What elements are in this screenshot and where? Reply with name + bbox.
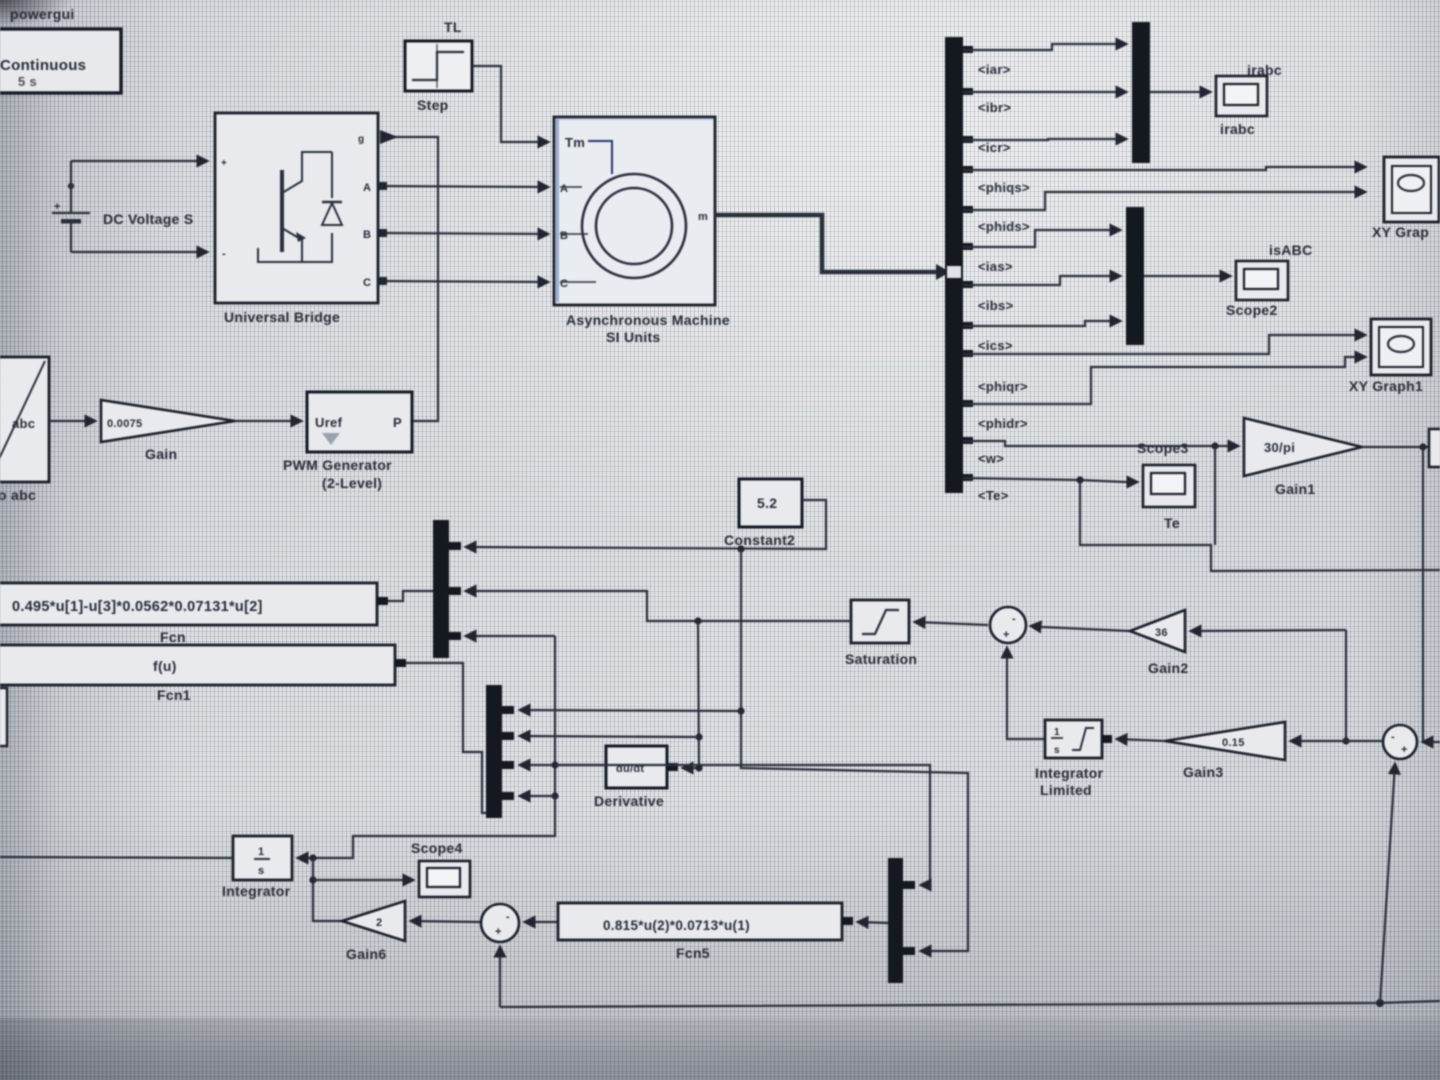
wire: Constant2 net down to mux2 input1 and mux3 input2	[741, 549, 968, 951]
wire: sum4 output to Gain6 input	[411, 921, 480, 922]
junction wr-796	[551, 792, 558, 799]
svg-text:30/pi: 30/pi	[1264, 440, 1295, 455]
scope Scope4	[411, 840, 470, 897]
svg-text:+: +	[54, 201, 61, 213]
svg-text:Gain1: Gain1	[1275, 481, 1315, 497]
svg-text:1: 1	[258, 846, 264, 858]
sum6 (circle right)	[1383, 725, 1417, 759]
wire: phiqs to XY Graph in1	[963, 167, 1365, 170]
svg-text:SI Units: SI Units	[606, 329, 661, 345]
block dq0-to-abc (cut at left edge)	[0, 357, 49, 503]
svg-text:0.815*u(2)*0.0713*u(1): 0.815*u(2)*0.0713*u(1)	[603, 918, 750, 933]
block PWM Generator (2-Level)	[283, 392, 412, 491]
wire: ias to mux5	[963, 230, 1120, 247]
svg-text:P: P	[393, 415, 402, 430]
junction wr-765	[551, 761, 558, 768]
wire: Gain2 output to sum5	[1031, 626, 1130, 631]
wire: bridge C to machine C	[378, 281, 548, 282]
wire: bridge A to machine A	[378, 186, 548, 187]
svg-text:<ias>: <ias>	[978, 259, 1013, 274]
junction bottom feedback	[1376, 999, 1384, 1007]
block Gain 0.0075	[101, 400, 235, 462]
svg-text:Fcn1: Fcn1	[157, 687, 191, 703]
svg-text:5 s: 5 s	[18, 74, 37, 89]
wire: icr to mux4	[963, 139, 1126, 140]
block Integrator (1/s) flipped	[222, 836, 292, 899]
wire: Gain3 output to Integrator Limited input	[1117, 739, 1165, 741]
svg-text:Gain3: Gain3	[1183, 764, 1223, 780]
block Universal Bridge	[215, 113, 378, 325]
svg-text:<phiqs>: <phiqs>	[978, 180, 1030, 195]
svg-text:<Te>: <Te>	[978, 488, 1009, 503]
wire: Gain2 feedback column	[1345, 630, 1347, 741]
svg-text:B: B	[363, 229, 371, 241]
scope Scope2 (isABC)	[1226, 242, 1313, 318]
mux4: rotor currents mux	[1132, 22, 1150, 163]
scope irabc	[1216, 62, 1282, 137]
block Fcn1	[0, 645, 406, 703]
svg-text:A: A	[363, 182, 371, 194]
svg-text:<w>: <w>	[978, 451, 1004, 466]
svg-text:Scope2: Scope2	[1226, 302, 1278, 318]
demux: machine measurement bus selector (tall black bar)	[945, 37, 963, 493]
block powergui (Continuous)	[0, 29, 121, 93]
wire: speed error to Gain2 input	[1191, 630, 1346, 631]
wire: mux2 input1	[520, 710, 741, 711]
wire: abc to Gain	[49, 420, 95, 422]
svg-text:isABC: isABC	[1269, 242, 1313, 258]
svg-text:<phiqr>: <phiqr>	[978, 379, 1028, 394]
svg-text:Integrator: Integrator	[1035, 765, 1104, 781]
svg-text:Scope4: Scope4	[411, 840, 463, 856]
svg-text:+: +	[221, 158, 227, 169]
mux5: stator currents mux	[1126, 207, 1144, 345]
svg-text:(2-Level): (2-Level)	[322, 475, 382, 491]
wire: mux1 input3 from wr column	[466, 635, 555, 637]
wire: phids to XY Graph in2	[963, 192, 1365, 210]
svg-text:m: m	[698, 211, 708, 223]
svg-text:Integrator: Integrator	[222, 883, 291, 899]
svg-text:s: s	[258, 865, 264, 877]
svg-text:Tm: Tm	[565, 135, 585, 150]
scope Te	[1143, 465, 1195, 531]
svg-text:A: A	[560, 183, 568, 195]
block Integrator Limited flipped	[1035, 720, 1112, 798]
wire: mux5 to Scope2	[1144, 275, 1230, 277]
svg-text:<ibr>: <ibr>	[978, 100, 1011, 115]
svg-text:Gain: Gain	[145, 446, 177, 462]
svg-text:XY Graph1: XY Graph1	[1349, 378, 1423, 394]
block Asynchronous Machine SI Units	[554, 117, 730, 345]
svg-text:Continuous: Continuous	[0, 57, 86, 74]
block Derivative (du/dt)	[594, 746, 678, 809]
junction deriv	[695, 764, 702, 771]
wire: node into integrator input	[298, 857, 313, 859]
wire: Te to scope Te	[963, 478, 1137, 482]
svg-text:Fcn: Fcn	[160, 629, 186, 645]
wire: speed feedback from Gain1 node down to sum	[1422, 447, 1424, 742]
mux2 (black bar)	[486, 685, 514, 818]
wire: iar to mux4	[963, 44, 1126, 50]
svg-text:Constant2: Constant2	[724, 532, 795, 548]
svg-text:Derivative: Derivative	[594, 793, 664, 809]
svg-text:Uref: Uref	[315, 415, 343, 430]
wire: ibr to mux4	[963, 91, 1126, 93]
wire: saturation net down to mux2 in2 and Derivative	[683, 621, 699, 768]
wire: Derivative output to mux2 input3	[520, 764, 606, 766]
svg-text:<phidr>: <phidr>	[978, 416, 1028, 431]
svg-text:PWM Generator: PWM Generator	[283, 457, 392, 473]
block XY Graph1	[1349, 319, 1431, 394]
svg-text:<ics>: <ics>	[978, 338, 1013, 353]
svg-text:Limited: Limited	[1040, 782, 1092, 798]
wire: DC- to bridge	[71, 251, 207, 253]
block Step (TL)	[405, 19, 472, 113]
wire: Fcn1 port to mux2	[406, 663, 486, 813]
demux output stubs	[963, 46, 973, 481]
sum4 (circle)	[481, 904, 519, 942]
wire: mux3 output to Fcn5 input	[858, 922, 888, 923]
junction node-880	[309, 876, 316, 883]
wire: bridge B to machine B	[378, 233, 548, 234]
svg-text:Step: Step	[417, 97, 449, 113]
block Gain1 (30/pi)	[1244, 418, 1362, 497]
wire: long bottom feedback	[500, 1001, 1440, 1007]
svg-text:C: C	[560, 278, 568, 290]
wire: w to Gain1	[963, 441, 1238, 446]
junction saturation net	[694, 617, 701, 624]
wire: DC+ to bridge	[71, 160, 207, 162]
junction mux2 in1	[737, 707, 744, 714]
wire: Fcn port to mux1	[388, 591, 433, 601]
wire: reference into sum6 right	[1423, 741, 1440, 743]
svg-text:f(u): f(u)	[153, 658, 177, 674]
svg-text:Te: Te	[1164, 515, 1180, 531]
wire: integrator-limited output up to sum5 bottom	[1007, 648, 1045, 739]
svg-text:o abc: o abc	[0, 487, 36, 503]
junction w-2	[1227, 442, 1234, 449]
svg-text:Fcn5: Fcn5	[676, 945, 710, 961]
svg-text:<icr>: <icr>	[978, 140, 1011, 155]
wire: node to Scope4	[313, 879, 413, 881]
svg-text:g: g	[358, 134, 364, 145]
block Saturation	[845, 600, 917, 667]
svg-text:C: C	[363, 277, 371, 289]
wire: ibs to mux5	[963, 276, 1120, 285]
svg-text:-: -	[1391, 731, 1395, 743]
svg-text:powergui: powergui	[10, 6, 75, 22]
block Gain6 (2) flipped	[342, 901, 405, 962]
svg-text:<phids>: <phids>	[978, 219, 1030, 234]
wire: phidr to XY Graph1 in2	[963, 357, 1365, 404]
block Constant2 (5.2)	[724, 479, 802, 548]
wire: ics to mux5	[963, 321, 1120, 326]
wire: Step output to machine Tm	[472, 66, 548, 142]
svg-text:-: -	[222, 248, 226, 260]
block Fcn	[0, 583, 388, 645]
svg-text:0.495*u[1]-u[3]*0.0562*0.07131: 0.495*u[1]-u[3]*0.0562*0.07131*u[2]	[12, 599, 263, 615]
svg-text:36: 36	[1155, 627, 1168, 639]
wire: machine m output bus to demux (thick)	[715, 215, 936, 272]
svg-text:+: +	[1401, 744, 1408, 756]
wire: phiqr to XY Graph1 in1	[963, 335, 1365, 354]
svg-text:Gain6: Gain6	[346, 946, 386, 962]
wire: wr distribution column	[313, 636, 555, 858]
wire: Gain to PWM Uref	[235, 420, 301, 422]
wire: mux2 input4	[520, 795, 555, 797]
svg-text:DC Voltage S: DC Voltage S	[103, 211, 193, 227]
wire: wr to mux3 input1	[555, 765, 930, 885]
svg-text:+: +	[1003, 629, 1010, 641]
svg-text:Asynchronous Machine: Asynchronous Machine	[566, 312, 730, 328]
wire: integrator output to left edge	[0, 857, 233, 858]
svg-text:0.0075: 0.0075	[107, 418, 142, 430]
wire: Saturation output left to mux1 input2	[466, 591, 851, 621]
wire: feedback up to sum6 bottom	[1380, 764, 1395, 1003]
wire: Gain1 output to rpm display	[1362, 446, 1429, 448]
junction Gain1 out	[1419, 443, 1426, 450]
svg-text:-: -	[506, 911, 510, 923]
wire: PWM P output up to bridge gate g	[394, 137, 438, 421]
mux1 (black bar)	[433, 520, 461, 658]
junction node-858	[309, 854, 316, 861]
svg-text:Saturation: Saturation	[845, 651, 917, 667]
svg-text:B: B	[560, 230, 568, 242]
junction sum6 out	[1342, 737, 1349, 744]
wire: sum4 feedback from bottom	[499, 947, 501, 1007]
junction w-1	[1211, 442, 1218, 449]
junction mux2 in2	[695, 733, 702, 740]
wire: mux2 input2	[520, 736, 699, 737]
junction Constant2 net	[737, 545, 744, 552]
block XY Graph	[1372, 157, 1439, 240]
svg-text:TL: TL	[444, 19, 462, 35]
svg-text:1: 1	[1054, 727, 1060, 738]
block Gain2 (36) flipped	[1130, 610, 1188, 676]
svg-text:XY Grap: XY Grap	[1372, 224, 1429, 240]
svg-text:2: 2	[376, 917, 382, 929]
wire: sum5 output to Saturation input	[915, 622, 988, 625]
svg-text:abc: abc	[12, 416, 35, 431]
wire: w feedback down-right	[1214, 446, 1216, 545]
wire: Te/w lower feedback to right edge	[1080, 480, 1440, 571]
junction Te	[1076, 476, 1083, 483]
svg-text:s: s	[1054, 745, 1060, 756]
block (cut at left edge, small)	[0, 688, 7, 746]
svg-text:Scope3: Scope3	[1137, 440, 1189, 456]
wire: sum6 output to Gain3 input	[1291, 740, 1383, 742]
wire: Fcn5 output to sum4	[525, 921, 558, 923]
wire: mux4 to Scope irabc	[1150, 91, 1210, 93]
svg-text:<ibs>: <ibs>	[978, 298, 1014, 313]
block Fcn5	[558, 903, 853, 961]
svg-text:Universal Bridge: Universal Bridge	[224, 309, 340, 325]
svg-text:-: -	[1012, 613, 1016, 625]
mux3 (black bar)	[888, 858, 915, 983]
svg-text:+: +	[495, 926, 502, 938]
sum5 (circle near saturation)	[990, 607, 1026, 643]
block display (cut at right edge)	[1429, 429, 1440, 467]
svg-text:0.15: 0.15	[1222, 737, 1245, 749]
wire: node column	[313, 858, 342, 921]
IGBT/diode icon inside bridge	[280, 170, 284, 252]
wire: Constant2 output loop to mux1 input1	[466, 500, 826, 549]
svg-text:irabc: irabc	[1220, 121, 1255, 137]
svg-text:5.2: 5.2	[757, 495, 777, 511]
svg-text:<iar>: <iar>	[978, 62, 1011, 77]
component DC Voltage Source (battery)	[52, 161, 193, 252]
block Gain3 (0.15) flipped	[1165, 722, 1285, 780]
svg-text:Gain2: Gain2	[1148, 660, 1188, 676]
